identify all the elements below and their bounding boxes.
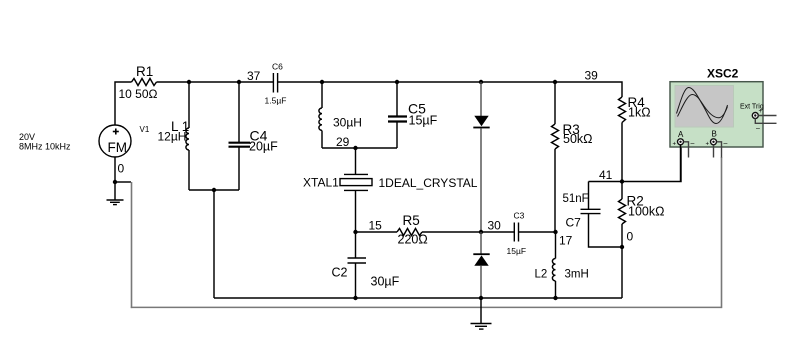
svg-text:1kΩ: 1kΩ — [628, 106, 651, 120]
node junction C4 top — [237, 80, 241, 84]
wire ground junction to gray net — [115, 181, 131, 183]
wire C3 to node 17 — [519, 231, 556, 233]
svg-text:39: 39 — [585, 69, 599, 83]
svg-text:V1: V1 — [140, 125, 150, 134]
wire gray net bottom rail — [131, 306, 722, 308]
wire gray net vertical left — [131, 182, 133, 308]
ground (bottom center) — [471, 298, 492, 329]
capacitor C7 — [581, 209, 601, 213]
wire node 0 down to ground rail — [621, 247, 623, 298]
inductor 30uH — [319, 108, 322, 130]
wire tank junction down to ground rail — [213, 190, 215, 298]
svg-text:–: – — [691, 141, 695, 148]
svg-text:C6: C6 — [272, 62, 283, 72]
svg-text:50kΩ: 50kΩ — [563, 132, 593, 146]
wire diode D1 branch top — [479, 80, 483, 84]
wire node 29 rail — [322, 147, 397, 149]
svg-text:30µF: 30µF — [371, 275, 400, 289]
node junction ground rail center — [479, 296, 483, 300]
wire 30uH bottom lead — [321, 131, 323, 149]
capacitor C6 — [273, 73, 277, 93]
svg-text:L2: L2 — [535, 269, 548, 281]
wire C2 bottom lead — [355, 263, 357, 298]
svg-text:–: – — [756, 125, 760, 132]
svg-text:+: + — [673, 142, 677, 148]
diode D1 — [473, 116, 489, 129]
wire black ground rail — [214, 297, 622, 299]
wire node 41 rail — [589, 144, 682, 182]
wire C7 bottom lead to node 0 — [589, 214, 622, 247]
wire gray net right vertical to scope B — [721, 157, 723, 308]
oscilloscope XSC2 body — [670, 82, 763, 147]
wire C5 top lead — [396, 82, 398, 116]
svg-text:0: 0 — [118, 162, 125, 176]
oscilloscope screen — [675, 86, 734, 128]
svg-text:C7: C7 — [566, 216, 582, 230]
svg-text:17: 17 — [559, 234, 573, 248]
svg-text:15µF: 15µF — [507, 246, 527, 256]
wire node 15 to R5 — [356, 231, 398, 233]
inductor L2 — [552, 259, 555, 281]
resistor R1 — [132, 79, 157, 86]
svg-text:1DEAL_CRYSTAL: 1DEAL_CRYSTAL — [379, 176, 478, 190]
svg-text:220Ω: 220Ω — [398, 233, 428, 247]
node junction 0 — [620, 245, 624, 249]
oscilloscope waveform trace 1 — [677, 87, 728, 123]
svg-text:B: B — [712, 130, 717, 139]
capacitor C3 — [514, 223, 518, 242]
source V1 FM — [99, 125, 131, 157]
svg-text:30µH: 30µH — [333, 116, 362, 130]
wire FM bottom to ground junction — [114, 157, 116, 182]
resistor R2 — [621, 182, 623, 200]
wire 30uH top lead — [321, 82, 323, 108]
wire scope A to node 41 — [680, 145, 682, 182]
node junction 41 — [620, 179, 624, 183]
node junction C5 top — [395, 80, 399, 84]
svg-text:+: + — [706, 142, 710, 148]
oscilloscope ext trig terminal — [752, 113, 758, 119]
svg-text:8MHz 10kHz: 8MHz 10kHz — [19, 142, 71, 152]
svg-text:41: 41 — [599, 168, 613, 182]
oscilloscope terminal B — [711, 139, 717, 145]
capacitor C4 — [229, 143, 251, 147]
wire diode D1 to node 30 — [480, 128, 482, 232]
wire R2 bottom to node 0 — [621, 224, 623, 247]
wire R3 bottom to node 17 — [554, 149, 556, 232]
svg-text:15: 15 — [369, 219, 383, 233]
wire C7 top lead — [588, 182, 590, 210]
wire L1 bottom lead — [188, 150, 190, 190]
oscilloscope terminal B plus stub — [713, 145, 715, 158]
svg-text:+: + — [759, 109, 763, 115]
oscilloscope terminal B minus pigtail — [717, 142, 722, 158]
oscilloscope waveform trace 2 — [678, 94, 728, 117]
node junction 15 — [353, 230, 357, 234]
crystal XTAL1 — [340, 174, 372, 190]
wire top rail left segment — [115, 82, 132, 125]
wire top rail R1 to C6 — [157, 81, 274, 83]
oscilloscope terminal A minus pigtail — [684, 142, 689, 158]
wire crystal bottom lead — [355, 190, 357, 232]
node junction at FM ground — [113, 180, 117, 184]
node junction R1-L1 top — [187, 80, 191, 84]
node junction 17 — [553, 230, 557, 234]
node junction R3 top — [553, 80, 557, 84]
capacitor C5 — [388, 117, 407, 122]
ground (FM source) — [107, 182, 124, 205]
wire diode D2 branch — [480, 232, 482, 254]
node junction bottom of tank — [212, 188, 216, 192]
wire C5 bottom lead — [396, 122, 398, 148]
wire L2 top lead — [555, 232, 557, 259]
oscilloscope ext trig minus pigtail — [755, 119, 776, 124]
resistor R5 — [397, 229, 422, 236]
wire L2 bottom lead — [555, 281, 557, 298]
svg-text:0: 0 — [627, 230, 634, 244]
node junction L2 ground — [553, 296, 557, 300]
svg-text:XTAL1: XTAL1 — [303, 176, 339, 190]
node junction L3 top — [320, 80, 324, 84]
wire C4 bottom lead — [238, 148, 240, 191]
svg-text:R5: R5 — [403, 213, 420, 228]
svg-text:10 50Ω: 10 50Ω — [119, 87, 158, 101]
wire R5 to node 30 — [422, 231, 481, 233]
node junction 30 — [479, 230, 483, 234]
diode D2 — [473, 253, 489, 265]
wire top rail C6 to R4 corner — [278, 82, 622, 97]
svg-text:R1: R1 — [136, 64, 153, 79]
wire R3 top lead — [554, 82, 556, 124]
svg-text:C2: C2 — [332, 266, 348, 280]
svg-text:37: 37 — [247, 69, 261, 83]
svg-text:1.5µF: 1.5µF — [265, 96, 287, 106]
svg-text:XSC2: XSC2 — [707, 67, 739, 81]
svg-text:51nF: 51nF — [563, 193, 589, 205]
svg-text:20V: 20V — [19, 132, 35, 142]
resistor R3 — [552, 124, 559, 149]
svg-text:29: 29 — [336, 135, 350, 149]
node junction C2 ground — [353, 296, 357, 300]
wire L1 top lead — [188, 82, 190, 128]
svg-text:15µF: 15µF — [409, 114, 438, 128]
wire diode D2 to ground rail — [480, 266, 482, 298]
wire C2 top lead — [355, 232, 357, 258]
svg-text:100kΩ: 100kΩ — [628, 205, 664, 219]
inductor L1 — [186, 128, 189, 150]
oscilloscope ext trig plus pigtail — [758, 115, 776, 117]
wire C4 top lead — [238, 82, 240, 142]
svg-text:FM: FM — [108, 140, 128, 155]
svg-text:3mH: 3mH — [565, 269, 589, 281]
svg-text:20µF: 20µF — [249, 140, 278, 154]
wire node 30 to C3 — [481, 231, 514, 233]
svg-text:12µH: 12µH — [158, 130, 187, 144]
wire L1-C4 bottom rail — [189, 189, 239, 191]
svg-text:–: – — [724, 141, 728, 148]
oscilloscope terminal A — [678, 139, 684, 145]
node junction 29 — [353, 146, 357, 150]
svg-text:A: A — [678, 130, 684, 139]
wire R4 bottom to node 41 — [621, 123, 623, 182]
svg-text:C3: C3 — [514, 211, 525, 221]
capacitor C2 — [348, 258, 367, 263]
wire crystal top lead — [355, 148, 357, 174]
resistor R4 — [619, 97, 626, 123]
svg-text:30: 30 — [488, 219, 502, 233]
